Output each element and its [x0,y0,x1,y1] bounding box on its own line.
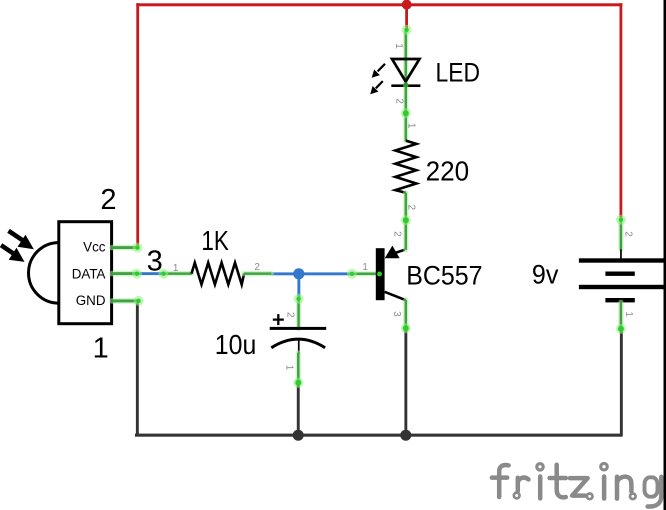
transistor Q1 BC557 base wire green [352,271,377,276]
resistor R2 220 zigzag [395,141,416,193]
resistor R2 220 top lead [403,113,408,141]
IR receiver incoming light arrow 2 [1,245,25,262]
svg-text:1: 1 [284,365,295,371]
battery BT1 bottom lead [618,302,623,329]
svg-text:GND: GND [76,293,106,308]
svg-text:Vcc: Vcc [83,240,106,255]
resistor R1 1K left lead [164,271,192,276]
capacitor C1 curved bottom plate [271,339,325,348]
capacitor C1 10u top lead [296,299,301,329]
wire: ground drop from collector [404,328,407,436]
wire: blue DATA to R1 [137,272,164,275]
wire: ground drop from battery [620,329,623,437]
battery BT1 plate 4 short [605,298,634,302]
svg-text:2: 2 [392,231,403,237]
IR receiver lens [28,243,58,304]
svg-text:1: 1 [362,262,368,273]
svg-text:2: 2 [394,98,405,104]
svg-text:1: 1 [93,332,109,364]
wire: ground drop from receiver GND [136,300,139,436]
transistor Q1 collector diagonal [385,292,406,300]
IR receiver body [59,222,112,324]
transistor Q1 emitter green wire from R2 [403,220,408,250]
svg-text:1: 1 [173,263,179,274]
connection cores (bright green dots) [135,28,624,386]
svg-text:1: 1 [623,311,634,317]
right border line [664,0,666,510]
transistor Q1 bar [376,248,385,300]
svg-text:DATA: DATA [72,266,106,281]
LED D1 emitted light arrow 2 [370,81,383,94]
fritzing watermark [492,463,661,506]
svg-text:10u: 10u [215,329,256,360]
transistor Q1 collector lead [403,300,408,328]
battery BT1 top lead [618,220,623,250]
svg-text:2: 2 [100,184,116,216]
LED D1 triangle [392,59,420,82]
LED D1 cathode bar [391,84,420,87]
wire: red right vertical to battery [620,3,623,220]
svg-text:1: 1 [393,43,404,49]
resistor R1 1K right lead [244,271,271,276]
svg-text:2: 2 [406,205,417,211]
IR receiver incoming light arrow 1 [9,231,34,250]
capacitor C1 bottom stub [298,339,300,354]
wire: ground drop from capacitor [297,382,300,436]
wire: blue R1 to base with junction [271,272,352,275]
svg-text:LED: LED [436,57,481,87]
resistor R1 1K zigzag [192,263,245,285]
wire: blue drop to capacitor [297,274,300,299]
LED D1 top lead [403,30,408,85]
wire: ground bottom horizontal [135,434,623,437]
battery BT1 plate 1 long [579,258,664,262]
battery BT1 plate 3 long [579,285,664,289]
svg-text:1: 1 [406,123,417,129]
wire: red top rail horizontal [136,3,622,6]
LED D1 emitted light arrow 1 [372,64,385,78]
resistor R2 220 bottom lead [403,193,408,221]
wire: red left vertical to Vcc [136,3,139,248]
svg-text:3: 3 [391,311,402,317]
svg-text:BC557: BC557 [406,260,482,290]
battery BT1 top stub [620,249,622,258]
svg-text:220: 220 [426,156,470,187]
node: ground junction collector [400,430,411,441]
node: ground junction capacitor [293,430,304,441]
transistor Q1 emitter arrow (PNP) [385,246,400,259]
node: red junction top rail / LED [402,0,412,10]
svg-text:2: 2 [254,262,260,273]
capacitor C1 bottom lead [296,353,301,383]
svg-text:2: 2 [623,231,634,237]
svg-text:9v: 9v [532,259,559,289]
IR receiver pin GND lead [112,298,139,304]
battery BT1 plate 2 short [605,272,634,276]
IR receiver pin Vcc lead [112,245,138,251]
LED D1 bottom lead [403,85,408,113]
wire: red drop to LED [405,3,408,30]
transistor Q1 emitter diagonal [393,250,405,254]
capacitor C1 top plate [270,327,327,330]
connection halos at pin ends [132,25,626,388]
node: blue junction [293,268,304,279]
svg-text:2: 2 [285,312,296,318]
capacitor C1 plus sign [273,314,284,325]
svg-text:1K: 1K [201,225,229,256]
IR receiver pin DATA lead [112,271,137,277]
